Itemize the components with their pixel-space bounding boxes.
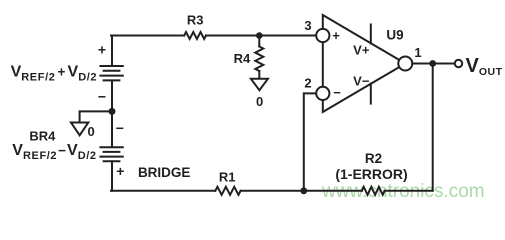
svg-text:1: 1 <box>414 45 421 60</box>
node top R4 junction <box>256 32 263 39</box>
wire top-left vertical <box>111 36 113 66</box>
svg-text:VREF/2−VD/2: VREF/2−VD/2 <box>12 142 96 162</box>
wire battery to bottom rail <box>111 161 113 191</box>
svg-text:3: 3 <box>304 18 311 33</box>
svg-text:−: − <box>116 120 124 136</box>
node bottom feedback junction <box>300 187 307 194</box>
wire top horizontal left of R3 <box>111 35 184 37</box>
ground 0 under R4 <box>251 79 268 90</box>
wire feedback vertical to pin2 <box>304 93 316 190</box>
wire R4 to ground <box>258 71 260 79</box>
wire mid node to ground <box>80 111 112 122</box>
svg-text:R2: R2 <box>365 151 382 166</box>
op-amp U9 triangle <box>323 15 406 112</box>
svg-text:+: + <box>98 42 106 58</box>
resistor R2 <box>362 187 385 195</box>
wire bottom rail between R1 and R2 <box>241 190 362 192</box>
svg-text:R1: R1 <box>219 170 236 185</box>
output pin 1 circle <box>398 57 412 71</box>
node output junction <box>429 60 436 67</box>
svg-text:+: + <box>116 163 124 179</box>
wire bottom rail left of R1 <box>111 190 215 192</box>
svg-text:−: − <box>333 85 341 100</box>
svg-text:0: 0 <box>88 124 95 139</box>
svg-text:(1-ERROR): (1-ERROR) <box>335 166 407 182</box>
wire output node down to R2 <box>432 64 434 191</box>
svg-text:V−: V− <box>353 74 370 89</box>
pin 3 circle <box>316 29 329 42</box>
op-amp V- pin stub <box>370 84 372 104</box>
pin 2 circle <box>316 87 329 100</box>
battery BR4 top cell plates <box>100 66 122 80</box>
svg-text:+: + <box>332 28 340 43</box>
node mid-left junction <box>109 108 116 115</box>
ground 0 mid-left <box>71 123 88 136</box>
op-amp V+ pin stub <box>370 25 372 44</box>
wire output to terminal <box>412 63 454 65</box>
svg-text:VREF/2+VD/2: VREF/2+VD/2 <box>11 64 98 84</box>
wire top horizontal right of R3 <box>206 35 316 37</box>
svg-text:2: 2 <box>304 76 311 91</box>
resistor R1 <box>215 187 240 195</box>
battery BR4 bottom cell plates <box>100 147 122 161</box>
svg-text:0: 0 <box>256 94 263 109</box>
svg-text:BRIDGE: BRIDGE <box>138 165 191 180</box>
svg-text:V+: V+ <box>353 43 370 58</box>
wire bottom rail right of R2 <box>385 190 433 192</box>
resistor R4 <box>255 47 263 72</box>
svg-text:R3: R3 <box>187 13 204 28</box>
svg-text:BR4: BR4 <box>29 128 56 143</box>
terminal circle VOUT <box>455 60 462 67</box>
svg-text:R4: R4 <box>234 51 251 66</box>
wire R4 stub from node <box>258 36 260 47</box>
svg-text:U9: U9 <box>386 28 403 43</box>
svg-text:VOUT: VOUT <box>466 55 503 78</box>
resistor R3 <box>184 32 206 39</box>
svg-text:−: − <box>98 89 106 105</box>
wire between battery cells <box>111 80 113 146</box>
